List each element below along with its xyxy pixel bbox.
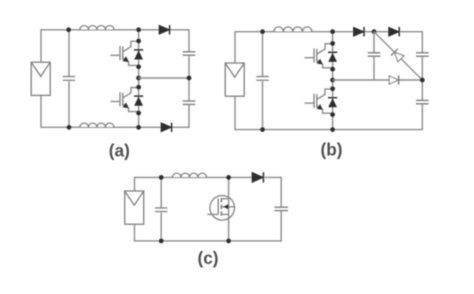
svg-text:(c): (c) (197, 248, 218, 268)
capacitor C9 plates (274, 206, 288, 208)
flying capacitor C5 branch lower (373, 56, 375, 80)
circuit (b) wire left side lower (234, 97, 236, 131)
output branch wire middle (188, 55, 190, 101)
circuit (a) wire left side upper (40, 29, 42, 62)
capacitor C8 plates (154, 208, 168, 213)
circuit (a) wire bottom right segment (172, 126, 189, 128)
node output midpoint (b) (420, 78, 425, 83)
node collector S1 (136, 39, 141, 44)
svg-text:(a): (a) (109, 141, 130, 161)
mosfet branch wire (228, 177, 230, 241)
node C4 bottom junction (260, 127, 265, 132)
node leg top rail (136, 27, 141, 32)
capacitor C6 plates (416, 52, 429, 54)
diode D6 (389, 76, 398, 84)
capacitor C4 plates (256, 76, 270, 81)
output branch (b) wire middle (421, 56, 423, 100)
diode D4 (389, 27, 399, 36)
diode D2 (161, 123, 171, 132)
freewheel diode of S3 (328, 51, 337, 53)
node L2-C1 junction (67, 125, 72, 130)
output branch (c) wire upper (280, 177, 282, 208)
capacitor C7 plates (416, 99, 429, 101)
capacitor C4 branch wire (262, 32, 264, 130)
node leg bottom rail (b) (330, 127, 335, 132)
freewheel diode of S4 (328, 97, 337, 99)
transistor S2 (123, 88, 139, 98)
circuit (c) wire left side lower (134, 225, 136, 242)
node emitter S1 (136, 64, 141, 69)
diagonal wire X to output midpoint (374, 32, 422, 80)
output branch wire upper (188, 29, 190, 52)
transistor S3 (317, 44, 333, 54)
half-bridge leg wire (138, 30, 140, 128)
node C8 bottom junction (159, 239, 164, 244)
inductor L1 (80, 24, 114, 30)
node L3-C4 junction (260, 29, 265, 34)
node L4-C8 junction (159, 175, 164, 180)
capacitor C2 plates (183, 51, 196, 53)
circuit (c) wire top rail left (135, 176, 253, 178)
inductor L2 (80, 121, 114, 127)
node mosfet source rail (226, 239, 231, 244)
output branch (b) wire upper (421, 31, 423, 53)
capacitor C8 branch wire (160, 177, 162, 241)
svg-text:(b): (b) (321, 139, 343, 159)
wire midpoint to output (139, 77, 189, 79)
output branch (b) wire lower (421, 104, 423, 131)
flying capacitor C5 branch upper (373, 32, 375, 53)
circuit (b) wire top rail right (399, 31, 422, 33)
circuit (c) wire top rail right (265, 176, 282, 178)
circuit (b) wire left side upper (234, 31, 236, 63)
transistor S4 (317, 89, 333, 99)
pv panel PV3 (125, 191, 144, 224)
node emitter S2 (136, 111, 141, 116)
diode D5 on diagonal (394, 52, 404, 62)
inductor L3 (274, 26, 312, 32)
circuit (b) wire top rail left (235, 31, 354, 33)
capacitor C5 plates (368, 52, 381, 54)
node midpoint M (136, 76, 141, 81)
node collector S3 (330, 41, 335, 46)
capacitor C1 branch wire (68, 30, 70, 128)
wire midpoint to D6 (b) (333, 79, 390, 81)
circuit (a) wire bottom rail (41, 126, 161, 128)
output branch (c) wire lower (280, 211, 282, 242)
mosfet Q1 (210, 196, 235, 221)
diode D1 (159, 26, 169, 35)
output branch wire lower (188, 104, 190, 128)
freewheel diode of S1 (134, 49, 143, 51)
diode D7 (252, 173, 263, 183)
freewheel diode of S2 (134, 95, 143, 97)
pv panel PV2 (225, 63, 244, 96)
diode D3 (354, 27, 364, 36)
node leg bottom rail (136, 125, 141, 130)
node X junction (372, 29, 377, 34)
node collector S4 (330, 86, 335, 91)
node mosfet drain rail (226, 175, 231, 180)
transistor S1 (123, 41, 139, 51)
circuit (b) wire bottom rail (235, 129, 422, 131)
inductor L4 (172, 171, 206, 177)
node emitter S4 (330, 112, 335, 117)
circuit (a) wire top rail (41, 29, 159, 31)
circuit (a) wire top right segment (170, 29, 189, 31)
half-bridge leg wire (b) (332, 32, 334, 130)
pv panel PV1 (31, 62, 50, 95)
node collector S2 (136, 85, 141, 90)
circuit (b) wire top rail mid (364, 31, 389, 33)
node leg top rail (b) (330, 29, 335, 34)
node emitter S3 (330, 67, 335, 72)
wire D6 to output node (b) (399, 79, 422, 81)
node output midpoint (187, 76, 192, 81)
capacitor C3 plates (183, 100, 196, 102)
capacitor C1 plates (62, 76, 76, 81)
circuit (a) wire left side lower (40, 96, 42, 128)
circuit (c) wire left side upper (134, 177, 136, 191)
node midpoint (b) (330, 78, 335, 83)
circuit (c) wire bottom rail (135, 240, 282, 242)
node L1-C1 junction (66, 27, 71, 32)
